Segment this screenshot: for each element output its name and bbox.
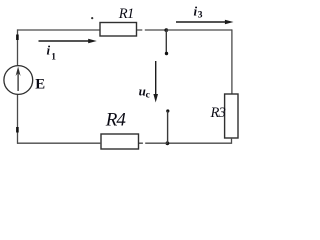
svg-text:R1: R1	[118, 6, 134, 22]
svg-text:E: E	[35, 77, 45, 93]
bottom junction dot	[166, 141, 170, 145]
svg-text:i: i	[47, 43, 51, 58]
source E arrow shaft	[17, 70, 19, 91]
wire R1 to node A (with small gap)	[137, 29, 166, 31]
arrow i1	[39, 40, 90, 42]
resistor R4	[101, 134, 139, 149]
svg-text:3: 3	[198, 11, 203, 21]
wire right side vertical down to R3	[231, 29, 233, 94]
wire left side upper vertical	[17, 29, 19, 66]
svg-text:1: 1	[51, 53, 56, 63]
wire R4 to bottom-left corner	[17, 142, 101, 144]
svg-text:c: c	[146, 91, 150, 101]
node B terminal dot	[165, 52, 168, 55]
node C branch lower segment	[167, 111, 169, 143]
wire node A to top-right corner	[166, 29, 232, 31]
source E arrowhead	[16, 67, 21, 77]
wire top-left horizontal (left corner to R1)	[17, 29, 100, 31]
node C terminal dot	[166, 109, 169, 112]
resistor R3	[225, 94, 238, 138]
node A junction dot	[164, 28, 168, 32]
source E circle	[4, 66, 33, 95]
svg-text:R3: R3	[210, 105, 226, 121]
overlap blob lower-left wire	[16, 127, 19, 133]
arrow i3	[176, 21, 226, 23]
wire left side lower vertical	[17, 94, 19, 144]
node B branch upper segment	[165, 30, 167, 53]
wire R3 bottom to bottom wire	[167, 138, 231, 143]
arrow u_c	[155, 61, 157, 94]
wire bottom junction to R4 (with gap)	[138, 142, 167, 144]
stray dot	[91, 17, 93, 19]
resistor R1	[100, 23, 137, 37]
svg-text:R4: R4	[105, 110, 127, 131]
overlap blob upper-left wire	[16, 35, 19, 41]
